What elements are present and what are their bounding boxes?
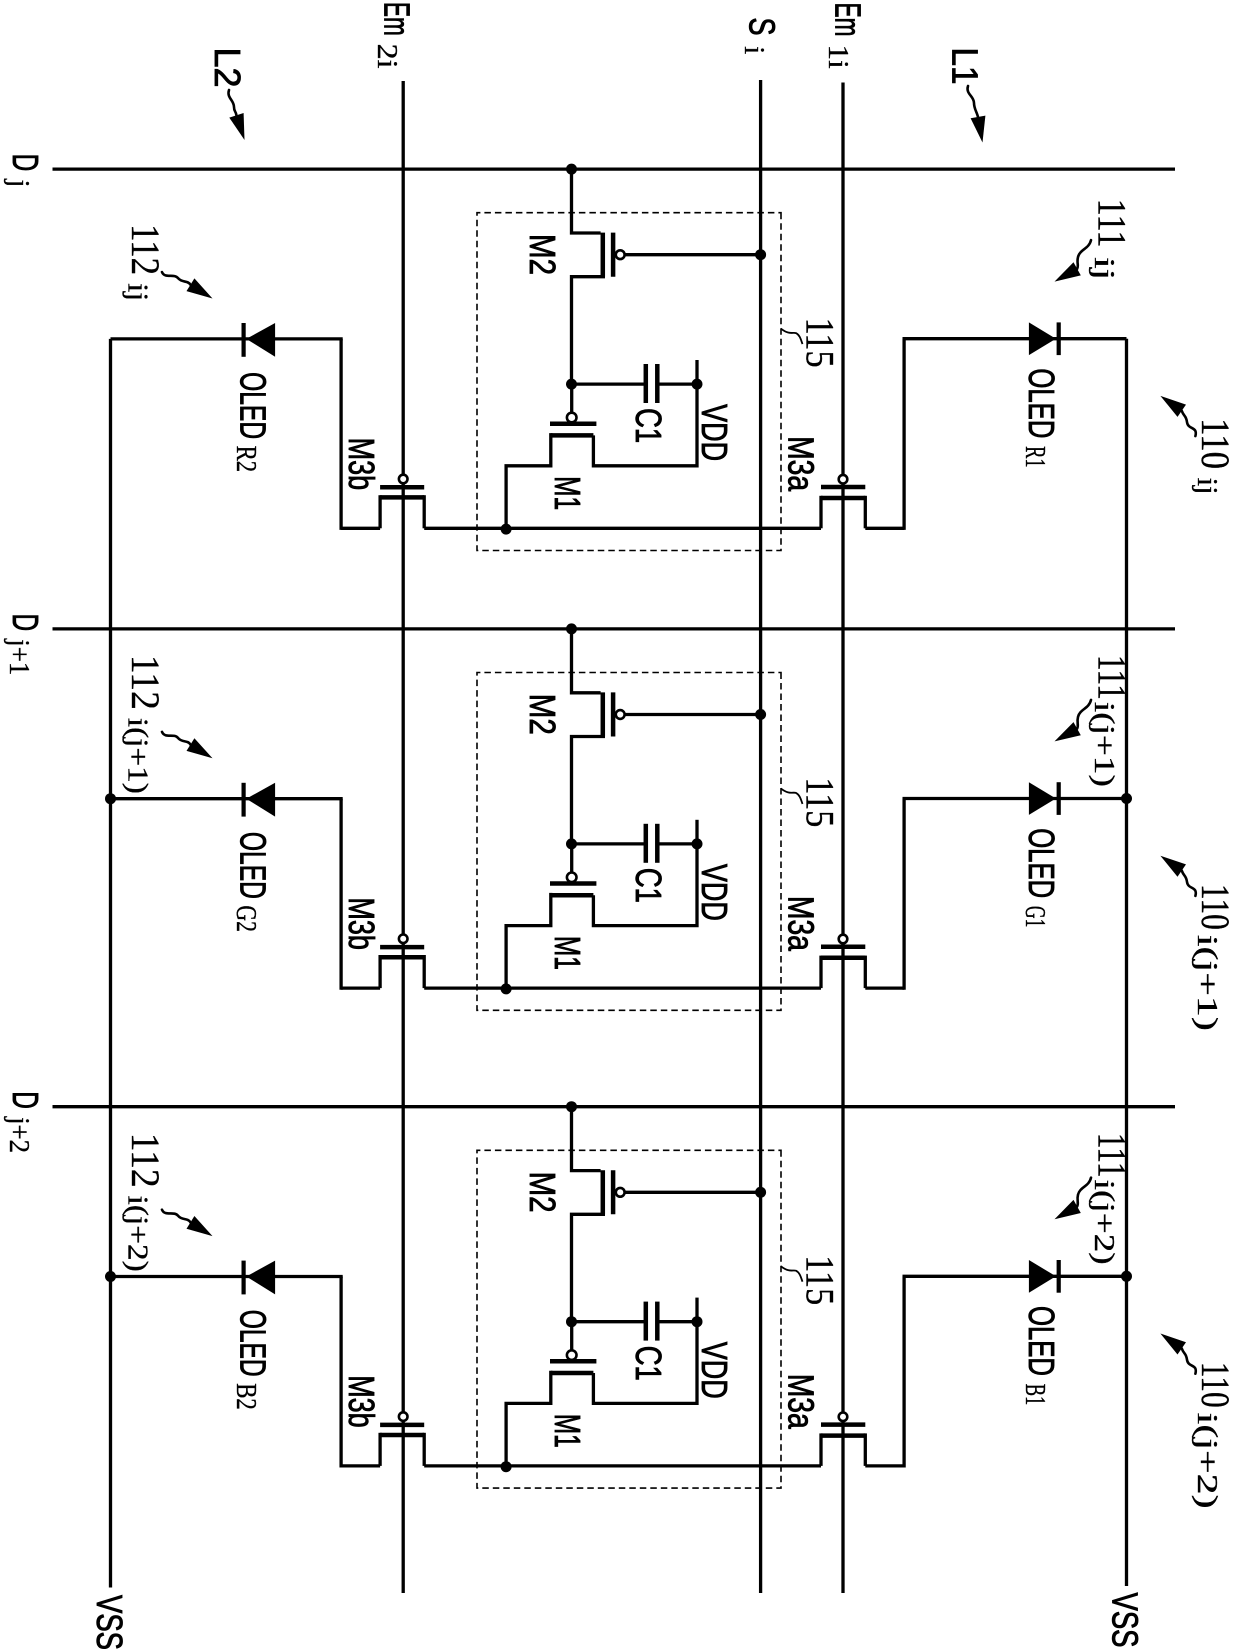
wire: M2 source from D line, cell 1 [572,169,601,233]
transistor M3a gate bubble on Em1i, cell 2 [839,935,848,944]
node: VDD node dot, cell 1 [692,379,703,390]
arrow for 110 label, cell 2 [1182,871,1196,896]
wire: VDD stub terminal, cell 2 [695,820,698,844]
transistor M1 gate bar, cell 2 [550,881,596,886]
node: M1 source junction dot, cell 3 [501,1461,512,1472]
svg-text:i(j+2): i(j+2) [1088,1180,1120,1265]
wire: M1 source to node rail, cell 2 [506,893,551,989]
svg-text:D: D [5,1091,46,1109]
svg-text:i(j+2): i(j+2) [1191,1413,1223,1509]
dashed box 115 (pixel driver), cell 1 [477,213,781,551]
svg-text:M1: M1 [547,476,588,510]
svg-text:110: 110 [1193,1362,1238,1408]
svg-text:C1: C1 [628,868,669,903]
transistor M2 gate bar, cell 3 [611,1170,616,1214]
wire: M3a arms, cell 1 [864,496,867,529]
svg-text:111: 111 [1090,655,1135,700]
svg-text:VSS: VSS [89,1595,130,1650]
svg-text:OLED: OLED [233,1310,274,1377]
wire: M2 gate to Si, cell 2 [625,713,761,716]
transistor M3a channel bar, cell 3 [821,1433,865,1438]
arrow for 112 label, cell 3 [162,1210,190,1223]
transistor M3a channel bar, cell 1 [821,496,865,501]
wire: C1 lower lead, cell 1 [572,382,646,385]
wire: data line Dj+1 [53,627,1176,630]
arrow for 110 label, cell 1 [1182,411,1196,436]
svg-text:G2: G2 [230,905,262,932]
arrow for 110 label, cell 3 [1182,1348,1196,1373]
transistor M2 gate bar, cell 1 [611,233,616,277]
wire: M3a arms, cell 2 [864,956,867,989]
arrow for 112 label, cell 2 [162,732,190,745]
wire: VDD node to M1 drain, cell 1 [593,384,697,466]
svg-text:M2: M2 [522,234,563,275]
transistor M1 gate bubble, cell 3 [567,1350,577,1360]
wire: shared node rail segments, cell 2 [865,986,904,989]
wire: M3a to OLED G1 anode, cell 2 [902,799,905,990]
svg-text:j+1: j+1 [3,638,35,675]
svg-text:i(j+1): i(j+1) [1088,702,1120,787]
node: junction dot on VSS top, cell 2 [1121,793,1132,804]
wire: C1 upper lead, cell 1 [657,382,697,385]
node: gate junction dot on Si, cell 1 [755,249,766,260]
transistor M2 gate bubble, cell 2 [616,710,625,719]
svg-text:C1: C1 [628,1346,669,1381]
transistor M3b gate bar, cell 3 [380,1423,424,1428]
wire: scan line Si [759,80,762,1593]
capacitor C1 plates, cell 2 [644,824,649,863]
wire: M1 gate lead, cell 1 [570,384,573,412]
transistor M1 gate bubble, cell 2 [567,873,577,883]
transistor M2 channel bar, cell 2 [601,692,606,736]
svg-text:R2: R2 [230,446,262,473]
transistor M1 channel bar, cell 2 [551,893,594,898]
wire: shared node rail segments, cell 1 [865,527,904,530]
transistor M2 gate bubble, cell 1 [616,250,625,259]
svg-text:M3b: M3b [341,1375,382,1428]
svg-text:D: D [5,154,46,172]
wire: M3a arms, cell 3 [864,1433,867,1466]
transistor M3b gate bar, cell 2 [380,945,424,950]
wire: C1 upper lead, cell 3 [657,1320,697,1323]
node: junction dot on VSS bottom, cell 3 [105,1271,116,1282]
svg-text:115: 115 [797,1255,842,1305]
transistor M3a gate bar, cell 2 [821,945,865,950]
svg-text:M1: M1 [547,936,588,970]
svg-text:VDD: VDD [694,404,735,461]
svg-text:i(j+1): i(j+1) [1191,935,1223,1031]
svg-text:L2: L2 [207,48,248,88]
OLED R2 diode, cell 1 [246,323,275,357]
svg-text:M3a: M3a [781,1374,822,1430]
wire: M3b to OLED G2 anode, cell 2 [339,799,342,990]
wire: M3b arms, cell 3 [423,1433,426,1466]
wire: data line Dj [53,167,1176,170]
svg-text:M1: M1 [547,1414,588,1448]
wire: M2 gate to Si, cell 3 [625,1191,761,1194]
capacitor C1 plates, cell 1 [644,364,649,403]
transistor M3b gate bubble on Em2i, cell 2 [399,935,408,944]
transistor M3a channel bar, cell 2 [821,956,865,961]
node: gate junction dot on Si, cell 3 [755,1187,766,1198]
wire: VSS rail top [1125,339,1128,1586]
dashed box 115 (pixel driver), cell 2 [477,673,781,1011]
OLED B2 diode, cell 3 [246,1261,275,1295]
svg-text:j: j [3,179,35,188]
node: gate junction dot on Si, cell 2 [755,709,766,720]
arrow for 112 label, cell 1 [162,272,190,285]
transistor M1 gate bar, cell 1 [550,421,596,426]
svg-text:ij: ij [1191,478,1223,495]
svg-text:OLED: OLED [1021,368,1062,438]
wire: M1 source to node rail, cell 3 [506,1371,551,1467]
svg-text:VSS: VSS [1105,1593,1146,1648]
transistor M3b gate bubble on Em2i, cell 3 [399,1412,408,1421]
svg-text:110: 110 [1193,418,1238,469]
svg-text:M3a: M3a [781,436,822,492]
svg-text:B1: B1 [1019,1384,1051,1406]
svg-text:115: 115 [797,777,842,827]
transistor M3a gate bar, cell 1 [821,485,865,490]
arrow for 111 label, cell 1 [1077,240,1091,269]
wire: VSS rail bottom [109,339,112,1588]
node: VDD node dot, cell 2 [692,838,703,849]
svg-text:M3a: M3a [781,896,822,952]
svg-text:ij: ij [1088,257,1120,280]
svg-text:B2: B2 [230,1383,262,1410]
svg-text:Em: Em [376,2,417,36]
arrow for 111 label, cell 2 [1077,700,1091,729]
transistor M3b channel bar, cell 3 [380,1433,424,1438]
wire: VDD stub terminal, cell 1 [695,360,698,384]
svg-text:2i: 2i [371,44,403,69]
svg-text:ij: ij [122,283,154,301]
node: junction dot on VSS bottom, cell 2 [105,793,116,804]
svg-text:j+2: j+2 [3,1116,35,1153]
node: VDD node dot, cell 3 [692,1316,703,1327]
svg-text:M3b: M3b [341,438,382,491]
svg-text:R1: R1 [1019,446,1051,468]
transistor M2 channel bar, cell 3 [601,1170,606,1214]
node: junction dot on VSS top, cell 3 [1121,1271,1132,1282]
wire: emission line Em2i [402,81,405,1593]
transistor M2 gate bubble, cell 3 [616,1188,625,1197]
arrow for L1 [968,86,979,118]
wire: M1 source to node rail, cell 1 [506,433,551,529]
node: storage node dot, cell 1 [566,379,577,390]
wire: M2 gate to Si, cell 1 [625,253,761,256]
svg-text:OLED: OLED [233,372,274,439]
svg-text:L1: L1 [945,48,986,85]
wire: data line Dj+2 [53,1105,1176,1108]
wire: M3b arms, cell 1 [423,495,426,528]
svg-text:M2: M2 [522,1172,563,1213]
OLED B1 diode, cell 3 [1029,1260,1056,1293]
wire: M3b to OLED B2 anode, cell 3 [339,1277,342,1468]
wire: VDD node to M1 drain, cell 3 [593,1322,697,1404]
node: storage node dot, cell 2 [566,838,577,849]
node: data-line junction dot on D line, cell 3 [566,1101,577,1112]
node: data-line junction dot on D line, cell 2 [566,623,577,634]
dashed box 115 (pixel driver), cell 3 [477,1150,781,1488]
node: data-line junction dot on D line, cell 1 [566,164,577,175]
svg-text:OLED: OLED [1021,1306,1062,1376]
svg-text:VDD: VDD [694,864,735,921]
svg-text:D: D [5,614,46,632]
wire: M2 drain to storage node, cell 2 [572,737,606,844]
wire: M3a to OLED R1 anode, cell 1 [902,339,905,530]
svg-text:i(j+1): i(j+1) [122,718,154,794]
svg-text:i(j+2): i(j+2) [122,1196,154,1272]
node: M1 source junction dot, cell 2 [501,983,512,994]
transistor M3a gate bubble on Em1i, cell 1 [839,475,848,484]
transistor M1 channel bar, cell 1 [551,433,594,438]
node: M1 source junction dot, cell 1 [501,524,512,535]
wire: M2 drain to storage node, cell 3 [572,1214,606,1321]
wire: shared node rail segments, cell 3 [865,1464,904,1467]
svg-text:110: 110 [1193,884,1238,930]
transistor M3b gate bar, cell 1 [380,485,424,490]
svg-text:VDD: VDD [694,1342,735,1399]
svg-text:M3b: M3b [341,897,382,950]
svg-text:111: 111 [1090,1133,1135,1178]
transistor M1 channel bar, cell 3 [551,1371,594,1376]
wire: emission line Em1i [841,83,844,1594]
svg-text:Em: Em [828,3,869,37]
svg-text:115: 115 [797,318,842,368]
wire: M1 gate lead, cell 2 [570,844,573,872]
transistor M2 channel bar, cell 1 [601,233,606,277]
wire: M2 source from D line, cell 3 [572,1107,601,1171]
wire: C1 lower lead, cell 2 [572,842,646,845]
wire: M3a to OLED B1 anode, cell 3 [902,1276,905,1467]
svg-text:S: S [742,18,783,36]
arrow for L2 [228,90,236,115]
svg-text:111: 111 [1090,199,1135,248]
wire: M1 gate lead, cell 3 [570,1322,573,1350]
transistor M3b channel bar, cell 1 [380,495,424,500]
transistor M3b gate bubble on Em2i, cell 1 [399,475,408,484]
transistor M2 gate bar, cell 2 [611,692,616,736]
wire: VDD node to M1 drain, cell 2 [593,844,697,926]
transistor M1 gate bubble, cell 1 [567,413,577,423]
wire: C1 upper lead, cell 2 [657,842,697,845]
OLED G2 diode, cell 2 [246,783,275,817]
svg-text:G1: G1 [1019,906,1051,928]
wire: C1 lower lead, cell 3 [572,1320,646,1323]
wire: M3b to OLED R2 anode, cell 1 [339,339,342,530]
transistor M3a gate bar, cell 3 [821,1422,865,1427]
svg-text:112: 112 [123,224,168,275]
transistor M3b channel bar, cell 2 [380,955,424,960]
svg-text:OLED: OLED [233,832,274,899]
capacitor C1 plates, cell 3 [644,1302,649,1341]
wire: VDD stub terminal, cell 3 [695,1298,698,1322]
transistor M3a gate bubble on Em1i, cell 3 [839,1413,848,1422]
OLED G1 diode, cell 2 [1029,782,1056,815]
arrow for 111 label, cell 3 [1077,1178,1091,1207]
svg-text:112: 112 [123,1133,168,1188]
svg-text:1i: 1i [822,45,854,69]
svg-text:OLED: OLED [1021,828,1062,898]
wire: M2 source from D line, cell 2 [572,629,601,693]
node: storage node dot, cell 3 [566,1316,577,1327]
svg-text:M2: M2 [522,694,563,735]
svg-text:i: i [738,46,770,54]
wire: M2 drain to storage node, cell 1 [572,277,606,384]
svg-text:C1: C1 [628,408,669,443]
transistor M1 gate bar, cell 3 [550,1359,596,1364]
svg-text:112: 112 [123,655,168,710]
OLED R1 diode, cell 1 [1029,322,1056,355]
wire: M3b arms, cell 2 [423,955,426,988]
